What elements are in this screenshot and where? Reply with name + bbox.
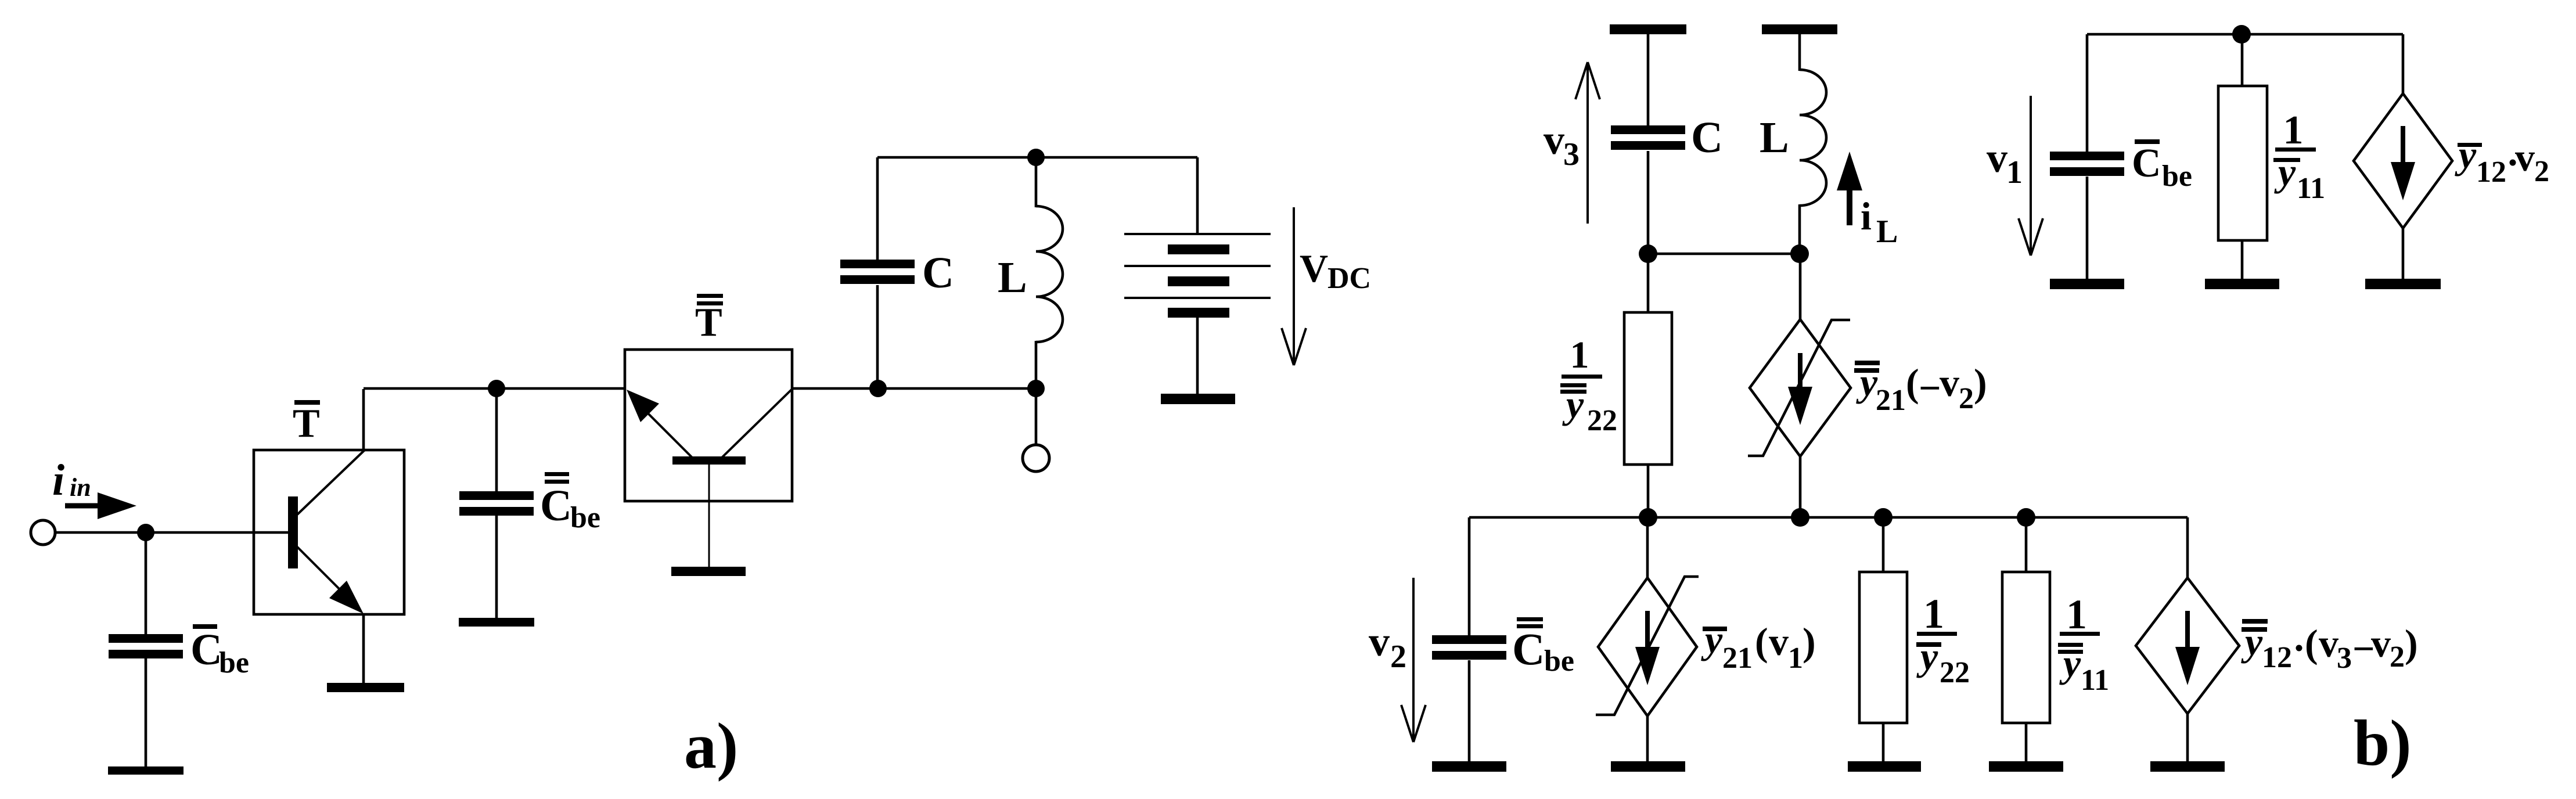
wire battery to ground: [1196, 318, 1199, 395]
wire Cbe1 to ground: [145, 658, 147, 768]
svg-text:C: C: [1512, 624, 1545, 674]
ground Cbe (b): [1432, 761, 1506, 772]
wire C to node3 (b): [1647, 151, 1650, 254]
wire bus to D3: [2186, 517, 2189, 579]
wire bus to R2: [1882, 517, 1885, 573]
ground Cbe2: [459, 618, 534, 627]
svg-text:v: v: [2319, 621, 2338, 665]
svg-text:v: v: [1369, 618, 1390, 665]
node tank L bottom: [1027, 380, 1045, 397]
node bus-R1: [1639, 508, 1657, 527]
source y12(v3-v2) arrow: [2185, 611, 2190, 650]
wire node to Cbe2: [495, 388, 498, 492]
ground D2: [1611, 761, 1685, 772]
svg-text:1: 1: [1788, 642, 1803, 675]
wire R1 to bus: [1647, 465, 1650, 517]
wire node3 horizontal: [1648, 253, 1800, 255]
tank top wire: [877, 156, 1197, 159]
arrow v1: [2030, 96, 2032, 255]
bus node 2: [1469, 516, 2188, 519]
svg-text:DC: DC: [1327, 262, 1371, 295]
label Cbe (v1): [2135, 139, 2160, 144]
svg-text:): ): [1803, 620, 1816, 664]
svg-text:V: V: [1300, 246, 1328, 290]
label Cbe2: [545, 472, 569, 476]
svg-text:2: 2: [1390, 639, 1406, 675]
inductor L tank: [1036, 206, 1063, 342]
svg-text:1: 1: [1923, 591, 1944, 637]
input current arrow: [65, 503, 105, 509]
node v1 circuit: [2232, 25, 2251, 44]
svg-text:12: 12: [2476, 156, 2506, 189]
svg-text:1: 1: [2006, 154, 2023, 190]
wire D1 to bus: [1799, 456, 1802, 517]
wire R4 to ground: [2241, 240, 2244, 280]
svg-text:v: v: [2515, 135, 2535, 179]
node bus-R2: [1874, 508, 1893, 527]
svg-text:1: 1: [2066, 591, 2087, 638]
resistor 1/y11s: [2218, 86, 2267, 240]
transistor T2 box: [625, 350, 792, 501]
svg-text:L: L: [1760, 113, 1789, 162]
inductor L (b): [1800, 70, 1826, 206]
wire D2 to ground: [1646, 716, 1649, 762]
svg-text:be: be: [219, 646, 249, 679]
node tank top: [1027, 149, 1045, 166]
battery VDC: [1124, 233, 1271, 235]
transistor T1 emitter: [297, 547, 348, 598]
svg-text:21: 21: [1876, 384, 1906, 417]
source y12v2 arrow: [2401, 126, 2405, 165]
wire input to T1 base: [55, 531, 288, 534]
wire L to bottom: [1035, 341, 1038, 388]
arrow iL: [1847, 187, 1852, 225]
svg-text:in: in: [70, 473, 91, 502]
svg-text:v: v: [1987, 135, 2007, 181]
svg-text:C: C: [1691, 113, 1723, 162]
node tank C bottom: [869, 380, 887, 397]
wire bus to Cbe (b): [1468, 517, 1471, 636]
svg-text:22: 22: [1940, 656, 1970, 689]
source y21(-v2) strike: [1748, 320, 1850, 456]
wire T1 collector up: [362, 389, 365, 452]
wire to Cbe (v1): [2086, 34, 2089, 153]
label y12(v3-v2): [2242, 619, 2268, 624]
label T1: [294, 400, 320, 405]
svg-text:be: be: [1544, 645, 1574, 678]
source y12(v3-v2) diamond: [2136, 578, 2239, 714]
svg-text:v: v: [1940, 361, 1959, 405]
svg-text:v: v: [2371, 621, 2391, 665]
svg-text:b): b): [2354, 707, 2412, 779]
svg-text:): ): [2405, 621, 2418, 665]
wire R2 to ground: [1882, 723, 1885, 762]
resistor 1/y11d: [2002, 572, 2050, 723]
wire D3 to ground: [2186, 714, 2189, 762]
svg-text:1: 1: [1570, 334, 1589, 376]
resistor 1/y22s: [1859, 572, 1907, 723]
ground R3: [1989, 761, 2063, 772]
top wire v1 circuit: [2087, 33, 2403, 36]
wire node to R4: [2241, 34, 2244, 87]
svg-text:C: C: [922, 249, 954, 297]
svg-text:21: 21: [1722, 642, 1753, 675]
wire L to node (b): [1798, 204, 1801, 254]
wire Cbe (v1) to ground: [2086, 177, 2089, 280]
svg-text:−: −: [1919, 366, 1941, 410]
node bus-D1: [1791, 508, 1809, 527]
svg-text:v: v: [1769, 620, 1789, 664]
svg-text:C: C: [190, 625, 222, 674]
capacitor C tank: [840, 260, 915, 268]
svg-text:(: (: [2305, 621, 2318, 665]
svg-text:2: 2: [2534, 155, 2549, 188]
svg-text:a): a): [684, 710, 738, 782]
svg-text:2: 2: [1959, 382, 1974, 415]
svg-text:L: L: [1876, 214, 1898, 250]
svg-text:3: 3: [1563, 136, 1580, 172]
wire bus to R3: [2025, 517, 2028, 573]
label y12v2: [2458, 143, 2482, 147]
wire top to C: [876, 157, 879, 261]
capacitor Cbe1: [109, 634, 183, 643]
node v3-L: [1790, 244, 1809, 263]
wire rail to L (b): [1798, 34, 1801, 71]
wire top to L: [1035, 157, 1038, 207]
resistor 1/y22d: [1624, 312, 1672, 465]
label y21(-v2): [1855, 361, 1880, 365]
ground D3: [2150, 761, 2225, 772]
supply rail bar L: [1762, 24, 1837, 34]
label y21(v1): [1703, 627, 1727, 631]
source y21(-v2) diamond: [1750, 319, 1851, 456]
svg-text:22: 22: [1587, 404, 1617, 437]
label T2: [697, 294, 723, 298]
label Cbe1: [193, 624, 217, 629]
svg-text:12: 12: [2262, 641, 2292, 674]
svg-text:v: v: [1544, 117, 1564, 163]
ground D4: [2365, 279, 2441, 289]
wire D4 to ground: [2402, 228, 2405, 280]
svg-text:T: T: [695, 300, 722, 345]
capacitor Cbe (b): [1432, 635, 1506, 644]
wire T1 emitter down: [362, 613, 365, 684]
wire top to battery: [1196, 157, 1199, 234]
source y21(v1) strike: [1596, 577, 1699, 715]
wire node3 to R1: [1647, 254, 1650, 314]
wire rail to C (b): [1647, 34, 1650, 127]
svg-text:be: be: [570, 501, 600, 534]
svg-text:): ): [1974, 361, 1987, 405]
arrow VDC: [1293, 207, 1295, 365]
wire R3 to ground: [2025, 723, 2028, 762]
wire T2 to tank: [792, 387, 1037, 390]
transistor T2 base bar: [672, 456, 746, 465]
transistor T2 emitter: [647, 413, 692, 458]
transistor T1 collector: [297, 451, 364, 514]
wire T2 base down: [708, 465, 710, 568]
node input: [137, 524, 154, 541]
arrow v2: [1412, 578, 1415, 742]
svg-text:3: 3: [2337, 642, 2352, 675]
ground T2 base: [671, 567, 746, 576]
supply rail bar node 3: [1610, 24, 1686, 34]
node Cbe2: [488, 380, 505, 397]
ground battery: [1161, 394, 1235, 404]
source y21(v1) diamond: [1598, 578, 1697, 716]
svg-text:i: i: [1861, 194, 1872, 238]
svg-text:11: 11: [2297, 172, 2325, 205]
label Cbe (b): [1517, 617, 1543, 621]
ground R2: [1848, 761, 1921, 772]
wire Cbe2 to ground: [495, 516, 498, 619]
svg-text:C: C: [2132, 141, 2161, 186]
svg-text:L: L: [998, 253, 1027, 302]
svg-text:(: (: [1906, 361, 1919, 405]
transistor T1 base bar: [288, 496, 298, 568]
wire node to Cbe1: [145, 532, 147, 635]
capacitor Cbe (v1): [2050, 152, 2124, 160]
svg-text:i: i: [52, 456, 64, 505]
svg-text:11: 11: [2081, 664, 2109, 697]
source y21(-v2) arrow: [1798, 353, 1803, 390]
node v3-C: [1639, 244, 1657, 263]
node bus-R3: [2017, 508, 2035, 527]
output terminal (open circle): [1023, 445, 1049, 472]
wire C to bottom: [876, 285, 879, 388]
capacitor Cbe2: [459, 491, 534, 500]
arrow v3: [1586, 62, 1589, 224]
wire T1 to T2: [364, 387, 625, 390]
svg-text:(: (: [1755, 620, 1768, 664]
input terminal (open circle): [31, 520, 55, 545]
ground R4: [2205, 279, 2279, 289]
ground Cbe1: [108, 766, 184, 775]
wire to output terminal: [1035, 388, 1038, 445]
wire node3 to D1: [1799, 254, 1802, 321]
svg-text:2: 2: [2390, 640, 2405, 674]
transistor T2 collector: [722, 388, 793, 458]
ground T1 emitter: [327, 683, 404, 692]
ground Cbe (v1): [2050, 279, 2124, 289]
wire Cbe (b) to ground: [1468, 660, 1471, 762]
svg-text:1: 1: [2283, 108, 2304, 153]
wire top to D4: [2402, 34, 2405, 95]
capacitor C (b): [1611, 125, 1685, 134]
transistor T1 box: [254, 450, 404, 614]
source y12v2 diamond: [2354, 93, 2452, 228]
svg-text:be: be: [2162, 160, 2192, 193]
svg-text:C: C: [540, 481, 572, 530]
source y21(v1) arrow: [1645, 611, 1650, 650]
svg-text:T: T: [293, 401, 320, 446]
wire bus to D2: [1646, 517, 1649, 579]
